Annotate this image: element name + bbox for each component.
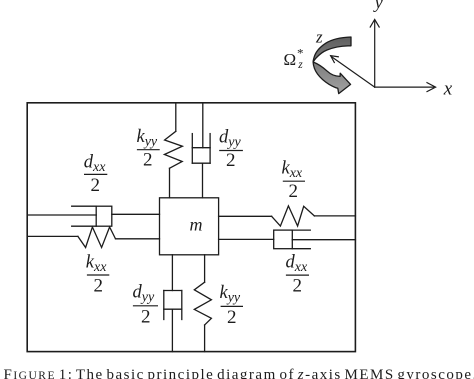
- rotation arrow Omega_z: [313, 37, 351, 94]
- label d_xx/2 right: [286, 253, 310, 297]
- y axis: [370, 19, 379, 87]
- svg-text:Ω: Ω: [284, 50, 297, 69]
- damper d_yy/2 bottom: [164, 291, 182, 320]
- svg-text:z: z: [315, 27, 323, 46]
- wire spring to right edge: [314, 215, 355, 217]
- svg-text:dyy: dyy: [219, 128, 241, 151]
- wire damper to mass top: [202, 163, 204, 198]
- label k_yy/2 bottom: [220, 283, 244, 328]
- wire left edge to damper d_xx/2 left: [27, 214, 96, 216]
- wire top to damper d_yy/2 rod: [202, 103, 204, 148]
- svg-text:kxx: kxx: [282, 159, 303, 182]
- svg-text:m: m: [190, 215, 203, 235]
- damper d_xx/2 left: [72, 206, 112, 226]
- svg-text:dyy: dyy: [133, 283, 155, 306]
- outer frame box: [27, 103, 355, 352]
- svg-text:2: 2: [94, 276, 104, 297]
- svg-text:2: 2: [226, 150, 236, 171]
- svg-text:2: 2: [91, 175, 101, 196]
- label z: [315, 27, 323, 46]
- label Omega_z*: [284, 46, 304, 72]
- z axis: [331, 56, 375, 87]
- svg-text:2: 2: [227, 307, 237, 328]
- wire mass bottom to spring k_yy/2: [204, 255, 206, 282]
- svg-text:y: y: [373, 0, 383, 12]
- wire damper to mass left upper: [112, 213, 160, 215]
- label d_yy/2 bottom: [133, 283, 159, 328]
- label d_xx/2 left: [84, 153, 108, 196]
- label y: [373, 0, 383, 12]
- svg-text:2: 2: [141, 306, 151, 327]
- damper d_xx/2 right: [274, 230, 311, 249]
- spring k_yy/2 bottom: [194, 282, 211, 325]
- spring k_xx/2 right: [272, 206, 315, 226]
- x axis: [375, 83, 436, 92]
- wire mass right upper to spring k_xx/2 right: [219, 215, 272, 217]
- svg-text:2: 2: [289, 181, 299, 202]
- label x: [443, 79, 453, 100]
- svg-text:FIGURE 1: The basic principle: FIGURE 1: The basic principle diagram of…: [4, 367, 474, 379]
- wire damper to right edge: [292, 239, 355, 241]
- svg-text:2: 2: [143, 149, 153, 170]
- svg-text:kyy: kyy: [137, 127, 158, 150]
- svg-text:2: 2: [293, 276, 303, 297]
- wire spring to bottom edge: [204, 325, 206, 352]
- spring k_xx/2 left: [78, 227, 116, 248]
- svg-text:dxx: dxx: [286, 253, 308, 276]
- wire spring to mass top: [169, 168, 171, 198]
- wire damper to bottom edge: [171, 309, 173, 351]
- wire mass right lower to damper d_xx/2 right: [219, 238, 274, 240]
- svg-text:z: z: [297, 59, 303, 71]
- label m: [190, 215, 203, 235]
- svg-text:kxx: kxx: [86, 253, 107, 276]
- svg-text:x: x: [443, 79, 453, 100]
- label d_yy/2 top: [219, 128, 243, 171]
- svg-text:kyy: kyy: [220, 283, 241, 306]
- wire spring to mass left lower: [116, 238, 160, 240]
- wire top to spring k_yy/2: [175, 103, 177, 132]
- label k_xx/2 left: [86, 253, 110, 297]
- damper d_yy/2 top: [192, 134, 210, 164]
- label k_xx/2 right: [282, 159, 306, 202]
- svg-text:dxx: dxx: [84, 153, 106, 176]
- label k_yy/2 top: [137, 127, 160, 170]
- mass m: [160, 198, 219, 255]
- figure caption: [4, 367, 474, 379]
- wire left edge to spring k_xx/2 left: [27, 235, 78, 237]
- wire mass bottom to damper d_yy/2 rod: [171, 255, 173, 291]
- spring k_yy/2 top: [164, 131, 182, 168]
